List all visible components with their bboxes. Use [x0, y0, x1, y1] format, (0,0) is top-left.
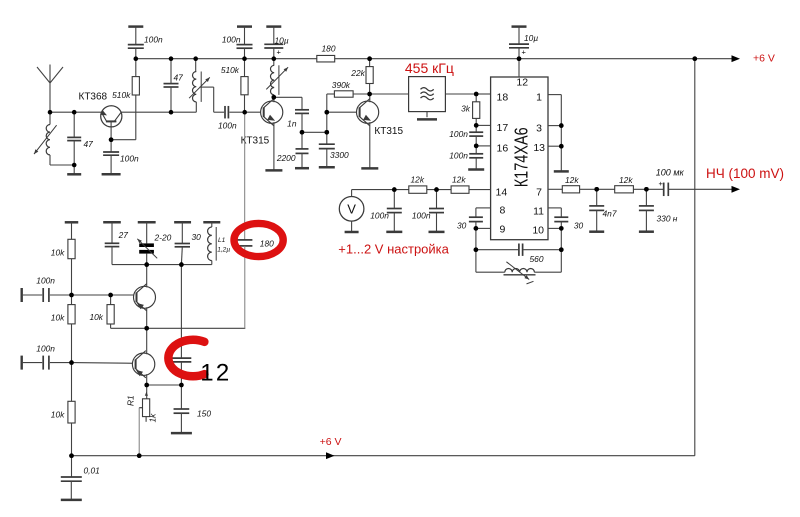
svg-text:390k: 390k	[332, 80, 351, 90]
svg-text:10µ: 10µ	[524, 33, 538, 43]
svg-text:100n: 100n	[144, 34, 163, 44]
svg-text:12k: 12k	[565, 175, 579, 185]
svg-text:10: 10	[532, 225, 544, 237]
svg-text:+6 V: +6 V	[753, 52, 775, 64]
svg-text:3k: 3k	[461, 104, 471, 114]
svg-text:330 н: 330 н	[657, 214, 678, 224]
svg-text:30: 30	[574, 221, 584, 231]
svg-text:16: 16	[497, 142, 509, 154]
svg-text:8: 8	[500, 205, 506, 217]
svg-text:510k: 510k	[221, 65, 240, 75]
svg-text:100n: 100n	[120, 153, 139, 163]
svg-text:560: 560	[530, 254, 544, 264]
svg-text:100n: 100n	[412, 211, 431, 221]
svg-text:К174ХА6: К174ХА6	[510, 127, 531, 187]
svg-text:L1: L1	[218, 237, 226, 244]
svg-text:2-20: 2-20	[154, 233, 172, 243]
svg-text:0,01: 0,01	[84, 466, 100, 476]
svg-text:+: +	[522, 47, 527, 56]
svg-text:10µ: 10µ	[275, 36, 289, 46]
svg-text:10k: 10k	[51, 313, 65, 323]
svg-text:100 мк: 100 мк	[656, 168, 685, 178]
svg-text:4n7: 4n7	[603, 209, 617, 219]
svg-text:1,2µ: 1,2µ	[217, 247, 230, 254]
svg-text:14: 14	[496, 187, 508, 199]
svg-text:100n: 100n	[449, 151, 468, 161]
svg-text:10k: 10k	[51, 248, 65, 258]
svg-text:100n: 100n	[449, 129, 468, 139]
svg-text:11: 11	[533, 206, 544, 218]
svg-text:12k: 12k	[411, 175, 425, 185]
svg-text:180: 180	[260, 239, 274, 249]
svg-text:1k: 1k	[148, 413, 158, 423]
svg-text:47: 47	[84, 139, 94, 149]
svg-text:2200: 2200	[276, 153, 296, 163]
svg-text:12: 12	[200, 360, 231, 387]
svg-text:+: +	[659, 179, 664, 188]
svg-text:3300: 3300	[330, 150, 349, 160]
svg-text:3: 3	[536, 122, 542, 134]
svg-text:30: 30	[457, 221, 467, 231]
svg-text:510k: 510k	[112, 90, 131, 100]
svg-text:12k: 12k	[452, 175, 466, 185]
svg-text:9: 9	[500, 224, 506, 236]
svg-text:100n: 100n	[36, 276, 55, 286]
svg-text:НЧ (100 mV): НЧ (100 mV)	[706, 166, 784, 181]
svg-text:КТ315: КТ315	[374, 126, 403, 137]
svg-text:100n: 100n	[370, 211, 389, 221]
svg-text:180: 180	[322, 43, 336, 53]
svg-text:100n: 100n	[36, 343, 55, 353]
svg-text:100n: 100n	[222, 35, 241, 45]
svg-text:V: V	[347, 201, 356, 216]
svg-text:30: 30	[192, 232, 202, 242]
svg-text:+1...2 V настройка: +1...2 V настройка	[338, 242, 449, 257]
svg-text:+: +	[277, 48, 282, 57]
svg-text:150: 150	[197, 409, 211, 419]
svg-text:27: 27	[118, 230, 129, 240]
svg-text:18: 18	[497, 92, 509, 104]
svg-text:47: 47	[174, 73, 184, 83]
svg-text:R1: R1	[126, 395, 136, 406]
svg-text:455 кГц: 455 кГц	[405, 60, 454, 76]
svg-text:7: 7	[536, 187, 542, 199]
svg-text:10k: 10k	[51, 410, 65, 420]
svg-text:13: 13	[533, 142, 545, 154]
svg-text:100n: 100n	[218, 121, 237, 131]
svg-text:1: 1	[536, 92, 542, 104]
svg-text:17: 17	[497, 122, 509, 134]
svg-text:22k: 22k	[350, 68, 365, 78]
svg-text:КТ368: КТ368	[79, 92, 108, 103]
svg-text:12: 12	[516, 77, 528, 89]
svg-text:12k: 12k	[619, 175, 633, 185]
svg-text:10k: 10k	[89, 312, 103, 322]
svg-text:+6 V: +6 V	[320, 436, 342, 448]
svg-text:1n: 1n	[287, 119, 297, 129]
